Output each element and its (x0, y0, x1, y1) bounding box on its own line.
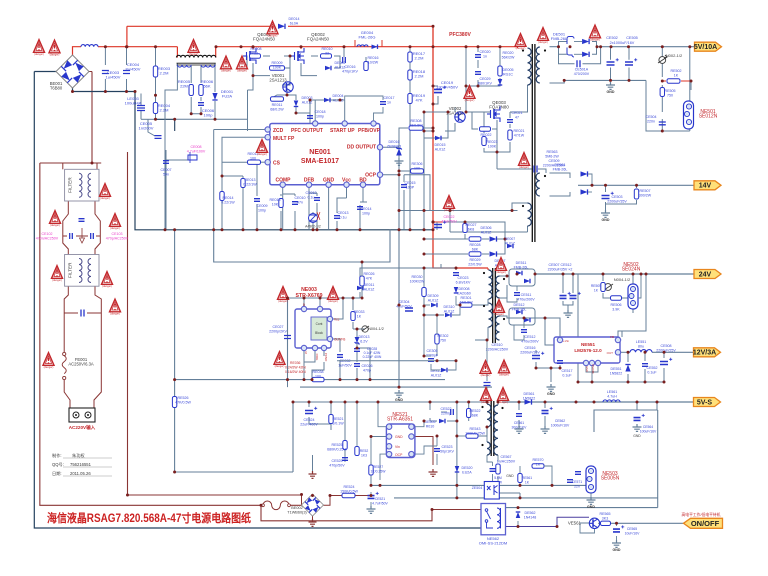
svg-text:750: 750 (667, 94, 673, 98)
capacitor CE005 (155, 136, 162, 139)
capacitor CE027 (284, 336, 291, 339)
wire CE567 (492, 462, 494, 466)
wire fb bus C (394, 497, 484, 499)
wire DE015 (441, 112, 448, 138)
wire (464, 234, 466, 239)
wire DE312 out (448, 361, 456, 370)
wire RE561 top (519, 483, 521, 485)
svg-text:RE011: RE011 (272, 103, 283, 107)
junction (432, 130, 435, 133)
warning triangle (34, 40, 45, 56)
wire (524, 401, 528, 403)
svg-text:CE017: CE017 (384, 96, 395, 100)
wire CS (261, 161, 268, 163)
svg-text:RE020: RE020 (503, 51, 514, 55)
svg-text:2SA1213: 2SA1213 (269, 78, 287, 83)
wire TL431 (312, 212, 314, 230)
svg-text:N004-1/2: N004-1/2 (368, 327, 384, 331)
resistor RE525 (343, 441, 347, 450)
resistor RE021 (508, 130, 512, 140)
wire fb bus A (371, 484, 484, 486)
wire RE543 a (457, 435, 466, 437)
svg-text:RE036: RE036 (290, 361, 300, 365)
wire T2 pri bot (475, 327, 488, 340)
capacitor CE304 (405, 308, 413, 311)
svg-text:RE525: RE525 (332, 443, 343, 447)
wire RE023 bot (484, 148, 497, 152)
svg-text:RE565: RE565 (600, 512, 611, 516)
junction (356, 401, 359, 404)
svg-text:BD: BD (359, 178, 367, 184)
wire DE562 bot (517, 521, 519, 527)
svg-text:47/0.5W: 47/0.5W (459, 301, 473, 305)
junction (221, 228, 224, 231)
wire CE020 (477, 47, 479, 52)
label CE305 (426, 349, 439, 358)
resistor RE020 (498, 66, 502, 76)
warning triangle (590, 25, 601, 41)
diode DE309 (431, 303, 437, 308)
wire RE028 row (424, 238, 468, 240)
wire standby live bus (128, 494, 302, 496)
wire QE002 drain (300, 47, 302, 49)
wire FB in (618, 331, 622, 337)
inductor line choke (81, 45, 98, 47)
svg-text:AL01Z: AL01Z (444, 310, 455, 314)
pin NE551 3 (595, 360, 600, 365)
label STR-X6769 (295, 293, 322, 299)
capacitor CE567 (490, 469, 496, 472)
transformer T2 primary A (489, 270, 493, 299)
junction (591, 184, 594, 187)
svg-text:DE008: DE008 (459, 287, 470, 291)
junction (336, 228, 339, 231)
junction (423, 267, 426, 270)
svg-text:(danger): (danger) (44, 365, 54, 369)
label CE017 (384, 96, 395, 105)
wire aux rail (423, 112, 425, 211)
junction (300, 45, 303, 48)
label QE003 (489, 100, 509, 110)
pin NE521 2 (386, 434, 391, 439)
svg-text:海信液晶RSAG7.820.568A-47寸电源电路图纸: 海信液晶RSAG7.820.568A-47寸电源电路图纸 (47, 511, 251, 525)
label RE308 (409, 119, 423, 128)
svg-text:1K/0.25W: 1K/0.25W (371, 470, 387, 474)
wire CE009 top (256, 162, 258, 196)
capacitor CE017 (380, 102, 386, 105)
wire (516, 286, 518, 291)
wire CE006 bot (200, 107, 202, 114)
junction (432, 127, 435, 130)
pin label NE551 GND (585, 366, 589, 372)
wire (310, 99, 340, 101)
wire (308, 417, 310, 424)
pin NE551 GND (583, 360, 588, 365)
junction (252, 74, 255, 77)
junction (294, 228, 297, 231)
svg-text:DE512: DE512 (514, 303, 525, 307)
wire (91, 72, 93, 164)
ground arrow filter (80, 228, 85, 243)
junction (356, 328, 359, 331)
svg-text:SE024N: SE024N (622, 267, 641, 273)
svg-text:CE512: CE512 (525, 335, 536, 339)
wire CE019 + (433, 85, 438, 87)
resistor RE521 (329, 415, 333, 424)
svg-text:CE029: CE029 (480, 77, 491, 81)
net label arrow ONOFF (684, 518, 723, 528)
svg-text:100p: 100p (316, 115, 324, 119)
label LM2576 (574, 348, 602, 353)
wire (296, 107, 310, 113)
svg-text:GND: GND (633, 434, 641, 438)
junction (499, 45, 502, 48)
label CE304 (396, 300, 412, 309)
junction (557, 45, 560, 48)
junction (518, 401, 521, 404)
svg-text:CE516: CE516 (525, 346, 536, 350)
junction (359, 228, 362, 231)
pin NE003 OLP (327, 336, 332, 341)
diode DE520 (455, 466, 460, 472)
label CE505 (626, 36, 638, 40)
svg-text:CE523: CE523 (442, 445, 453, 449)
IC NE501 body (684, 101, 694, 129)
wire CE504 bot (661, 119, 663, 131)
wire aux supply bus (399, 210, 518, 212)
capacitor CE032 (337, 355, 343, 358)
wire DFB (308, 188, 310, 230)
svg-text:470p/1KV: 470p/1KV (342, 70, 358, 74)
label DE505 (425, 420, 436, 429)
svg-text:14V: 14V (699, 183, 712, 190)
label CE517 (562, 369, 573, 378)
svg-text:CE525: CE525 (332, 459, 343, 463)
svg-text:(danger): (danger) (328, 299, 338, 303)
junction (591, 381, 594, 384)
wire (301, 495, 303, 505)
resistor RE038 (312, 377, 324, 381)
label CE019 (436, 80, 458, 90)
wire CE022 link (433, 221, 443, 223)
wire to Vin (545, 318, 560, 337)
svg-text:RE527: RE527 (373, 465, 383, 469)
capacitor CE023 (453, 273, 459, 276)
label CE502 (606, 36, 618, 40)
diode DE016 zener (396, 147, 402, 156)
pin label OUT (607, 351, 614, 355)
junction (260, 504, 263, 507)
wire (497, 239, 505, 254)
resistor RE023 (482, 137, 486, 146)
wire CE012 (309, 192, 317, 194)
transformer T2 primary B (489, 303, 493, 327)
label ON OFF note (681, 512, 720, 517)
label RE522 (470, 409, 481, 418)
svg-text:56K: 56K (203, 84, 210, 89)
junction (432, 221, 435, 224)
junction (455, 267, 458, 270)
label CE103 (106, 232, 129, 241)
junction (309, 99, 312, 102)
svg-text:(danger): (danger) (50, 223, 60, 227)
junction (125, 90, 128, 93)
svg-text:100: 100 (250, 157, 256, 161)
junction (377, 401, 380, 404)
wire (309, 423, 331, 425)
transformer T3 primary (487, 404, 491, 427)
junction (356, 378, 359, 381)
wire CE503 (605, 185, 607, 192)
label DE003 (302, 96, 314, 105)
junction (429, 401, 432, 404)
label RE020 (502, 51, 515, 60)
wire 12V gnd bus (578, 381, 664, 383)
diode DE501 A (582, 39, 589, 44)
svg-text:Vin: Vin (395, 445, 400, 449)
ground NE521 (429, 469, 438, 476)
svg-text:3K3: 3K3 (602, 517, 608, 521)
capacitor CE001 (81, 310, 84, 317)
wire CE004 top (126, 47, 128, 65)
svg-text:DE561: DE561 (555, 163, 566, 167)
net label arrow 5V10A (694, 42, 722, 51)
svg-text:680K/0.25W: 680K/0.25W (327, 448, 347, 452)
wire rect in b (559, 47, 568, 55)
wire (399, 128, 408, 138)
svg-text:CE026: CE026 (362, 364, 373, 368)
junction (173, 471, 176, 474)
svg-text:FU2A: FU2A (222, 94, 233, 99)
wire (319, 298, 321, 309)
junction (432, 103, 435, 106)
wire RE019 to bus (409, 104, 411, 230)
wire sense bus (175, 118, 215, 120)
svg-text:FMB-26L: FMB-26L (514, 266, 529, 270)
svg-text:CE008: CE008 (191, 145, 202, 149)
pin NE003 Vcc (327, 316, 332, 321)
wire (316, 203, 318, 230)
wire OCP (380, 174, 399, 176)
wire QE002 source (301, 63, 317, 76)
wire (409, 80, 411, 93)
junction (661, 45, 664, 48)
wire BD (362, 188, 364, 203)
net label arrow 5VS (694, 398, 721, 407)
junction (398, 386, 401, 389)
wire DE008 RE301 (456, 296, 460, 305)
wire pin D (303, 298, 305, 309)
svg-text:PCND: PCND (324, 353, 328, 362)
wire T3 aux bot (487, 455, 493, 462)
junction (71, 90, 74, 93)
svg-text:680/1KV: 680/1KV (478, 82, 492, 86)
label NE503 (601, 471, 620, 482)
label GND 5VS (633, 434, 641, 438)
wire (360, 201, 363, 203)
junction (173, 228, 176, 231)
wire MULT (222, 137, 268, 160)
svg-text:Cont: Cont (316, 322, 323, 326)
warning triangle (100, 184, 111, 200)
svg-text:RE026: RE026 (364, 272, 375, 276)
wire (403, 190, 405, 230)
junction (640, 273, 643, 276)
label CE511 (517, 293, 535, 302)
wire RE033 top (352, 298, 354, 310)
svg-text:5.6M: 5.6M (494, 476, 502, 480)
junction (329, 494, 332, 497)
wire CE507 (562, 274, 564, 293)
wire CE003 top (104, 47, 106, 65)
svg-text:RE033: RE033 (354, 310, 365, 314)
svg-text:RE507: RE507 (640, 189, 651, 193)
junction (312, 228, 315, 231)
wire NE503 box right (657, 410, 659, 508)
wire CE502 (610, 47, 612, 60)
wire CE517 (559, 365, 561, 368)
svg-text:A4902-1/2: A4902-1/2 (305, 225, 321, 229)
svg-text:START UP: START UP (330, 128, 355, 134)
inductor LE002 (137, 106, 145, 111)
ground NE503 (587, 497, 596, 504)
svg-text:CE021: CE021 (512, 111, 523, 115)
resistor RE301 (460, 303, 472, 307)
wire RE527 col (370, 462, 372, 485)
svg-text:5M6-2W: 5M6-2W (545, 155, 559, 159)
filter block FL2 (65, 255, 99, 287)
ground 14V label (602, 218, 610, 222)
wire DE310 out (452, 305, 460, 315)
transistor VE001 (283, 82, 293, 92)
label RE507 (639, 189, 652, 198)
wire CE016 (343, 47, 345, 57)
junction (295, 112, 298, 115)
junction (215, 45, 218, 48)
svg-text:2200p/2KV: 2200p/2KV (269, 330, 287, 334)
junction (173, 118, 176, 121)
wire T2 pri link (487, 299, 489, 303)
wire RE306 in (399, 171, 410, 175)
svg-text:CE103: CE103 (112, 232, 123, 236)
wire (497, 476, 499, 482)
wire (563, 301, 573, 305)
junction (632, 273, 635, 276)
wire (424, 111, 448, 113)
junction (339, 99, 342, 102)
transistor QE001 (243, 48, 256, 64)
svg-text:Vcc: Vcc (342, 178, 351, 184)
svg-text:AL01Z: AL01Z (333, 99, 344, 103)
svg-text:68K: 68K (472, 414, 479, 418)
junction (432, 228, 435, 231)
svg-text:6K8: 6K8 (468, 228, 474, 232)
wire (222, 161, 247, 163)
svg-text:CE305: CE305 (427, 349, 438, 353)
svg-text:470p/50V: 470p/50V (329, 464, 345, 468)
label VE002 (446, 106, 464, 116)
label DE004 (333, 94, 345, 103)
junction (286, 94, 289, 97)
junction (517, 525, 520, 528)
wire CE523 (436, 436, 438, 446)
label DE011 (364, 283, 375, 292)
svg-text:3.9K: 3.9K (612, 308, 620, 312)
resistor RE013 (241, 179, 245, 188)
junction (562, 273, 565, 276)
wire snub a (559, 47, 575, 64)
svg-text:SE005N: SE005N (601, 476, 620, 482)
wire (505, 221, 518, 223)
svg-text:DE562: DE562 (525, 511, 536, 515)
pin label Vcc (342, 178, 351, 184)
wire CE004 bot (126, 79, 128, 92)
wire sec top (497, 402, 499, 405)
wire (492, 128, 497, 130)
junction (656, 401, 659, 404)
svg-text:RE505: RE505 (665, 89, 676, 93)
wire fb bus B (499, 484, 588, 486)
svg-text:22M: 22M (180, 84, 188, 89)
svg-text:RE308: RE308 (411, 119, 422, 123)
junction (459, 304, 462, 307)
wire CE510 top (486, 340, 488, 381)
wire (436, 454, 438, 465)
resistor RE528 (355, 447, 359, 456)
junction (200, 112, 203, 115)
svg-text:2.2M: 2.2M (415, 74, 424, 79)
wire AC neutral loop (34, 72, 481, 529)
wire RE016 (365, 57, 367, 62)
label LE561 (607, 390, 617, 399)
wire CE305 col (423, 315, 425, 356)
label CE507 CE512 (548, 263, 573, 272)
junction (409, 228, 412, 231)
wire BE002 gnd (312, 516, 314, 519)
svg-text:RE010: RE010 (322, 47, 333, 51)
IC NE003 outline (295, 309, 331, 348)
junction (423, 228, 426, 231)
svg-text:FMB-26L: FMB-26L (551, 36, 568, 41)
label CE027 (269, 325, 287, 334)
resistor RE018 (408, 70, 412, 80)
svg-text:DE561: DE561 (524, 392, 535, 396)
wire CE007 col (165, 150, 167, 230)
label DE001 (221, 89, 234, 99)
capacitor CE006 (198, 103, 204, 106)
wire (423, 298, 425, 306)
warning triangle (188, 40, 199, 56)
svg-text:T6B80: T6B80 (50, 86, 63, 91)
label CE020 (480, 50, 491, 59)
wire RE525 col (344, 402, 346, 440)
wire QE003 source (496, 120, 498, 169)
label RE302 (438, 334, 449, 343)
ground NE503 label (587, 505, 595, 509)
label DE312 (431, 369, 443, 378)
wire (141, 118, 156, 120)
transformer T1 secondary 5V (536, 47, 540, 83)
label RE505 750 (665, 89, 676, 98)
svg-text:RG1C: RG1C (503, 73, 513, 77)
wire (636, 414, 638, 424)
wire PFC380V rail (433, 26, 488, 268)
svg-text:DE551: DE551 (611, 367, 622, 371)
resistor RE017 (408, 52, 412, 62)
wire Y-cap link (497, 168, 533, 170)
svg-text:OMI-SS-212DM: OMI-SS-212DM (479, 541, 507, 546)
wire (574, 53, 582, 55)
